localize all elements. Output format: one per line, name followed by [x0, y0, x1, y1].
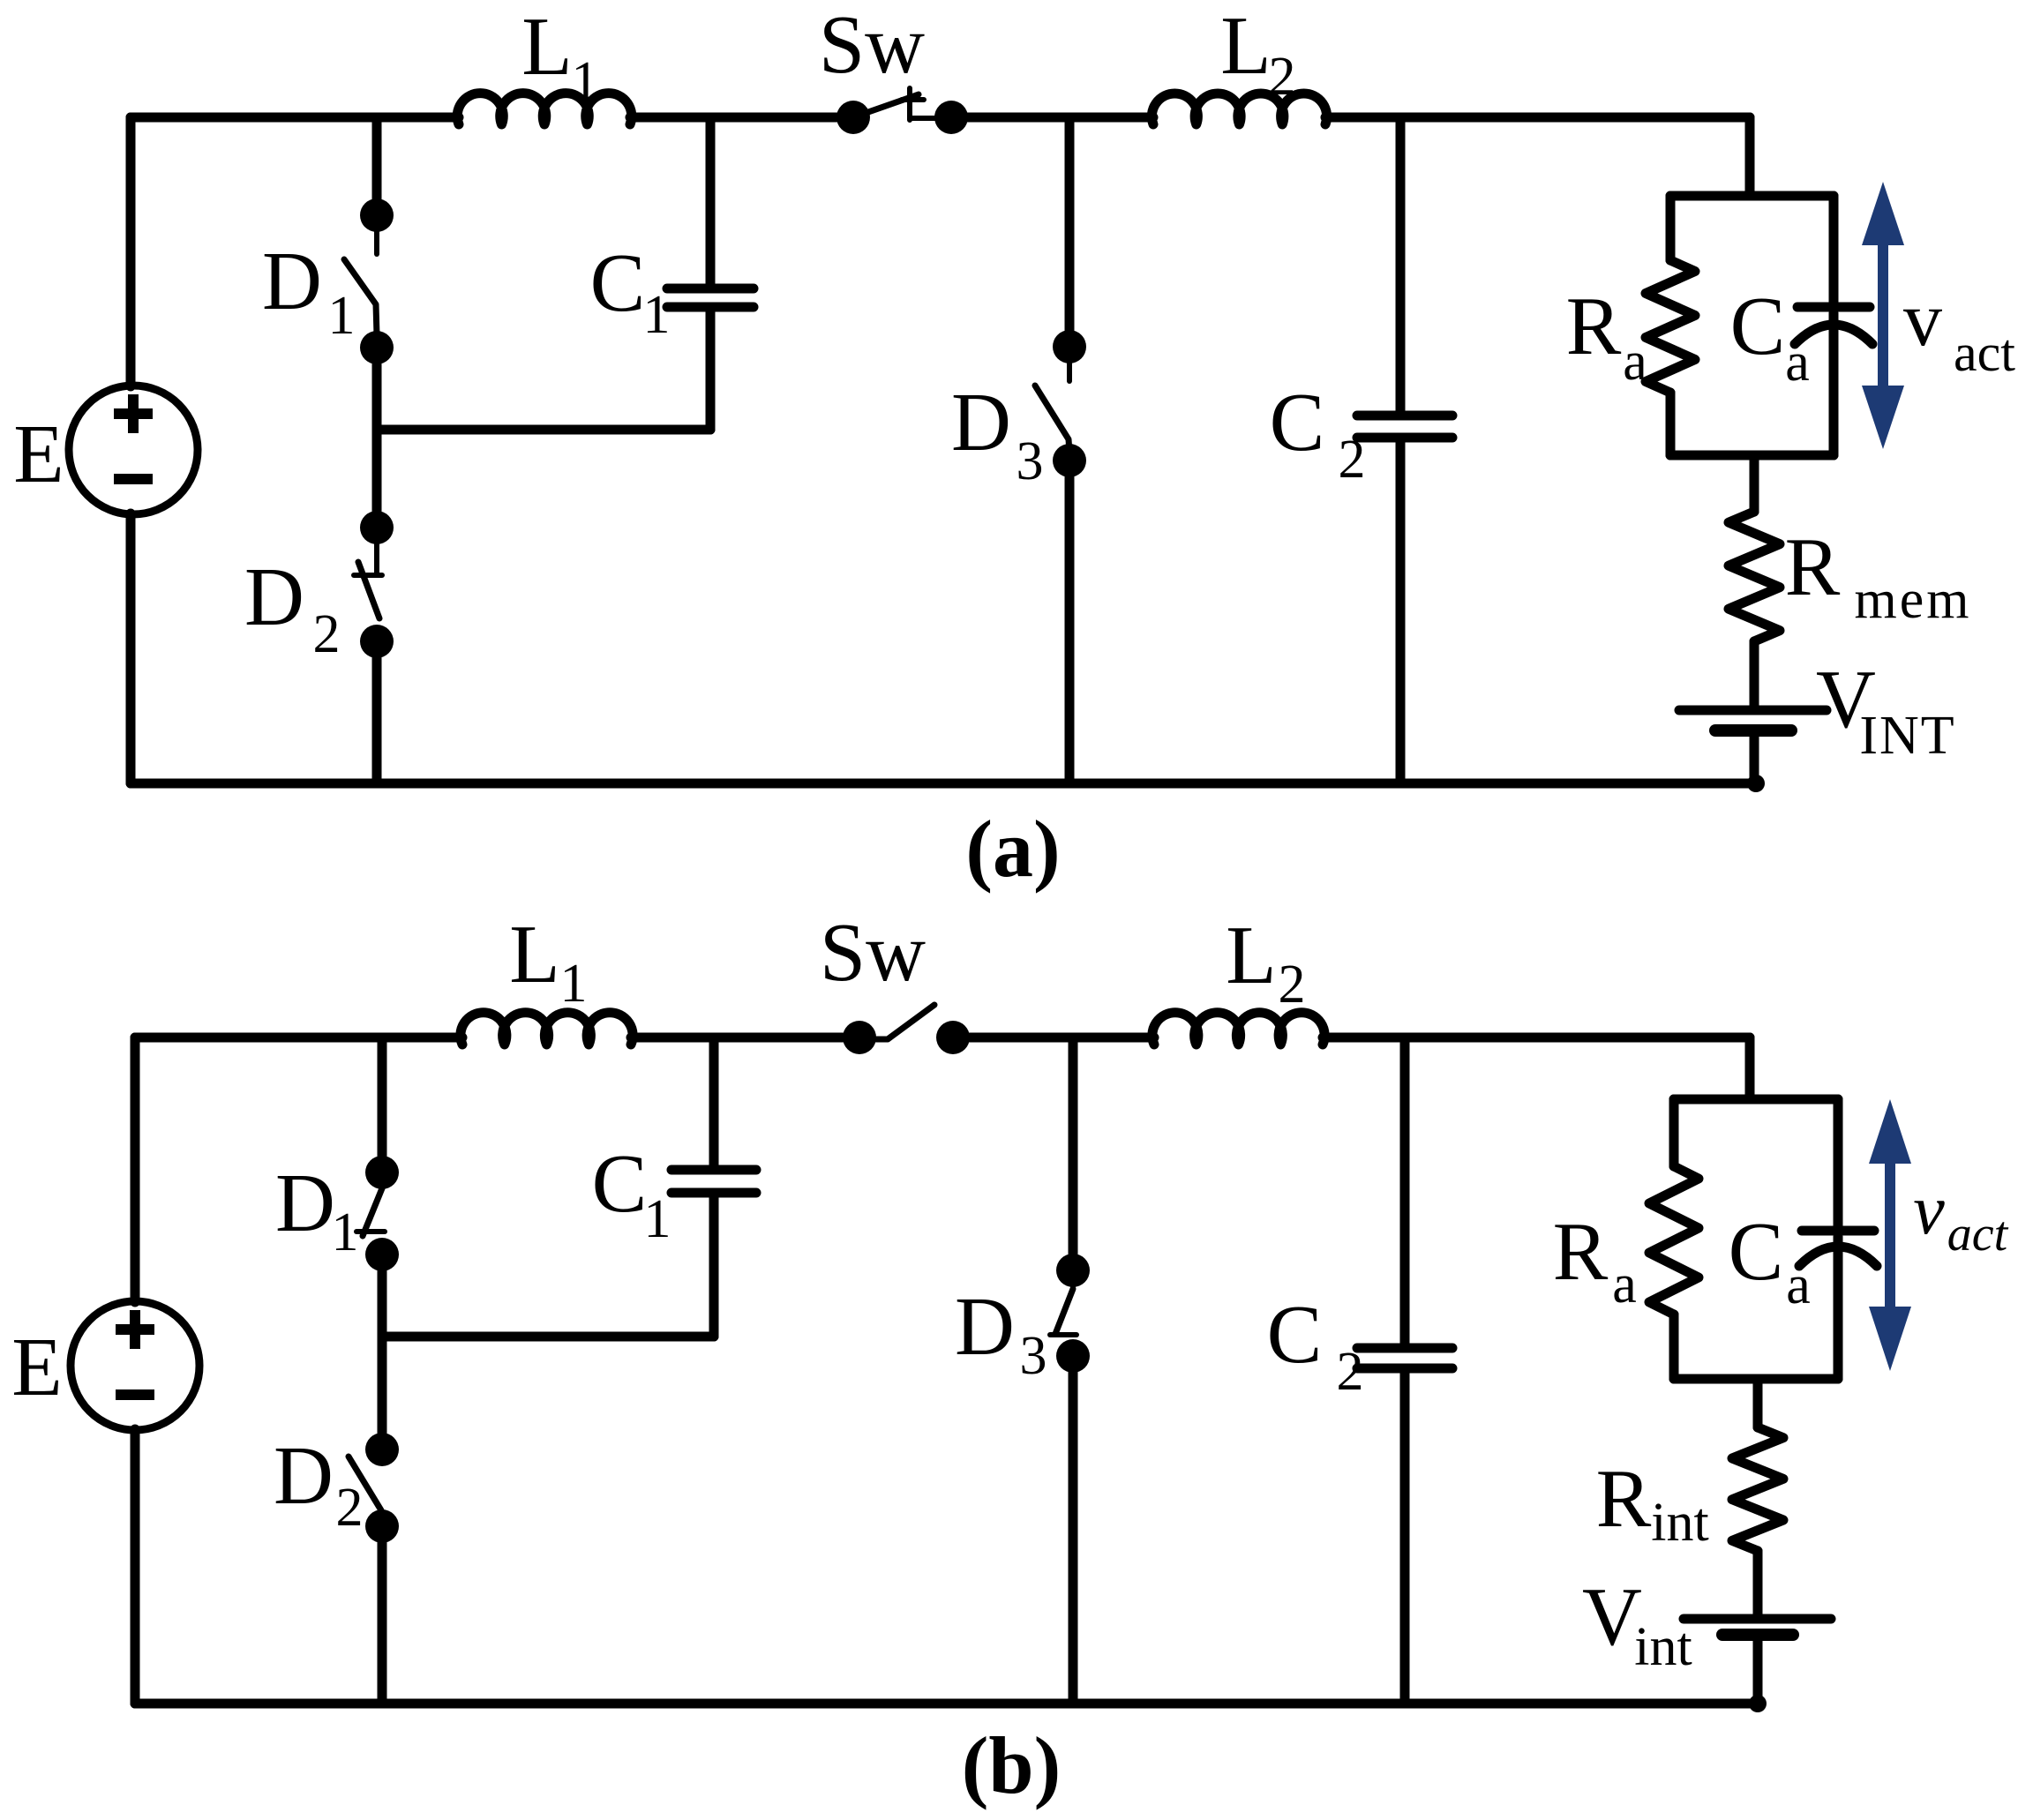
wire top rail (a) right segment — [951, 113, 1153, 123]
svg-text:D: D — [274, 1430, 334, 1522]
label C2 (b) — [1267, 1289, 1364, 1402]
inductor L2 (b) — [1152, 1013, 1324, 1045]
svg-text:L: L — [1220, 0, 1271, 92]
wire branch D3 to bottom rail (a) — [1065, 461, 1075, 783]
wire middle return C1 to D-branch (b) — [382, 1332, 714, 1342]
svg-text:v: v — [1903, 277, 1942, 363]
label Ca (a) — [1730, 281, 1810, 393]
svg-text:C: C — [1270, 377, 1325, 468]
wire top rail (b) left segment — [135, 1033, 462, 1043]
wire middle return C1 to D-branch (a) — [377, 425, 710, 435]
svg-text:Sw: Sw — [819, 0, 925, 91]
svg-text:a: a — [1786, 1255, 1811, 1315]
wire battery to bottom rail (a) — [1750, 730, 1759, 783]
svg-text:1: 1 — [328, 286, 356, 346]
wire top rail (b) right segment — [953, 1033, 1154, 1043]
wire branch D1-D2 (b) upper — [378, 1037, 387, 1174]
svg-text:mem: mem — [1855, 570, 1972, 630]
label V_int (b) — [1582, 1571, 1692, 1677]
svg-text:int: int — [1634, 1617, 1692, 1677]
wire branch D1-D2 (a) upper — [372, 117, 382, 217]
label Ra (b) — [1553, 1206, 1637, 1314]
svg-text:2: 2 — [1279, 955, 1306, 1015]
svg-text:2: 2 — [1339, 430, 1366, 490]
label C1 (b) — [592, 1138, 671, 1249]
svg-text:3: 3 — [1020, 1326, 1047, 1386]
switch-diode D2 (a) — [354, 511, 394, 658]
voltage arrow v_act (b) — [1869, 1099, 1911, 1371]
svg-text:act: act — [1947, 1207, 2009, 1262]
svg-text:a: a — [1785, 333, 1810, 393]
wire box to Rint (b) — [1753, 1379, 1763, 1427]
wire branch D1 to junction (b) — [378, 1255, 387, 1449]
wire branch D2 to bottom rail (a) — [372, 641, 382, 783]
voltage source E (b) — [71, 1301, 199, 1430]
svg-text:L: L — [509, 909, 559, 1000]
wire top rail (a) between L1 and Sw — [630, 113, 853, 123]
svg-text:(b): (b) — [962, 1720, 1061, 1810]
svg-text:v: v — [1913, 1172, 1945, 1249]
svg-text:2: 2 — [313, 604, 341, 664]
label Ca (b) — [1729, 1206, 1811, 1315]
svg-text:C: C — [592, 1138, 648, 1230]
junction dot bottom right (b) — [1749, 1695, 1767, 1712]
switch Sw (a) — [836, 88, 968, 134]
svg-text:int: int — [1651, 1493, 1708, 1553]
switch Sw (b) — [843, 1005, 970, 1054]
switch-diode D1 (a) — [344, 198, 394, 364]
svg-text:a: a — [1623, 332, 1647, 392]
label D3 (b) — [955, 1281, 1047, 1386]
svg-text:R: R — [1566, 281, 1622, 372]
switch-diode D3 (a) — [1035, 330, 1086, 477]
wire Rmem to battery (a) — [1750, 641, 1759, 710]
resistor Rint (b) — [1732, 1427, 1783, 1551]
svg-text:L: L — [521, 1, 572, 93]
label Ra (a) — [1566, 281, 1647, 392]
wire branch D1 to junction (a) — [372, 348, 382, 528]
wire branch D3 (b) upper — [1069, 1037, 1078, 1272]
wire branch D2 to bottom rail (b) — [378, 1526, 387, 1704]
wire branch D3 to bottom rail (b) — [1069, 1356, 1078, 1704]
wire top rail (b) after L2 — [1323, 1033, 1750, 1043]
svg-text:C: C — [590, 237, 646, 329]
wire battery to bottom rail (b) — [1753, 1635, 1763, 1704]
svg-text:D: D — [951, 377, 1011, 468]
svg-text:D: D — [244, 551, 304, 643]
capacitor C2 (a) — [1357, 117, 1452, 783]
label L1 (a) — [521, 1, 598, 111]
svg-text:act: act — [1954, 324, 2015, 382]
svg-text:R: R — [1553, 1206, 1609, 1298]
capacitor C1 (b) — [671, 1037, 756, 1337]
wire top rail to actuator box (a) — [1745, 117, 1755, 196]
svg-text:1: 1 — [644, 1189, 671, 1249]
svg-text:L: L — [1226, 910, 1276, 1001]
label V_INT (a) — [1816, 654, 1956, 766]
svg-text:Sw: Sw — [820, 907, 926, 999]
resistor Ra (b) on box left edge — [1649, 1099, 1699, 1379]
svg-text:1: 1 — [332, 1202, 359, 1262]
label D2 (a) — [244, 551, 340, 664]
svg-text:C: C — [1730, 281, 1786, 372]
svg-text:1: 1 — [560, 954, 588, 1014]
switch-diode D2 (b) — [349, 1433, 399, 1543]
actuator box (a) top edge — [1670, 191, 1834, 201]
label L1 (b) — [509, 909, 587, 1014]
wire left rail (a) upper — [126, 117, 136, 386]
svg-text:D: D — [955, 1281, 1015, 1373]
label v_act (a) — [1903, 277, 2015, 382]
label D2 (b) — [274, 1430, 363, 1538]
wire branch D3 (a) upper — [1065, 117, 1075, 348]
svg-text:a: a — [1612, 1255, 1637, 1314]
svg-text:2: 2 — [336, 1478, 364, 1538]
wire box to Rmem (a) — [1750, 455, 1759, 512]
wire left rail (b) lower — [131, 1429, 140, 1704]
svg-text:3: 3 — [1017, 431, 1044, 491]
label D3 (a) — [951, 377, 1043, 491]
capacitor C1 (a) — [667, 117, 754, 430]
label C1 (a) — [590, 237, 671, 345]
junction dot bottom right (a) — [1747, 775, 1765, 792]
capacitor C2 (b) — [1357, 1037, 1452, 1704]
wire top rail (a) left segment — [131, 113, 459, 123]
label D1 (a) — [262, 236, 355, 346]
battery V_int (b) — [1684, 1619, 1831, 1635]
voltage arrow v_act (a) — [1862, 182, 1904, 449]
voltage source E (a) — [69, 386, 198, 514]
svg-text:(a): (a) — [965, 804, 1060, 894]
svg-text:1: 1 — [643, 285, 671, 345]
svg-text:D: D — [275, 1157, 335, 1249]
actuator box (b) bottom edge — [1674, 1374, 1838, 1384]
actuator box (b) top edge — [1674, 1095, 1838, 1105]
resistor Rmem (a) — [1729, 512, 1780, 641]
wire bottom rail (a) — [131, 779, 1756, 789]
label v_act (b) — [1913, 1172, 2008, 1262]
wire Rint to battery (b) — [1753, 1551, 1763, 1619]
wire top rail (a) after L2 — [1325, 113, 1750, 123]
svg-text:2: 2 — [1337, 1342, 1364, 1402]
switch-diode D3 (b) — [1050, 1254, 1090, 1373]
label Rmem (a) — [1785, 521, 1972, 630]
label C2 (a) — [1270, 377, 1366, 490]
inductor L2 (a) — [1152, 94, 1326, 124]
actuator box (a) bottom edge — [1670, 451, 1834, 461]
wire top rail to actuator box (b) — [1745, 1037, 1755, 1099]
switch-diode D1 (b) — [356, 1156, 399, 1271]
capacitor Ca (b) on box right edge — [1799, 1099, 1877, 1379]
capacitor Ca (a) on box right edge — [1795, 196, 1872, 455]
svg-text:C: C — [1267, 1289, 1323, 1381]
wire left rail (b) upper — [131, 1037, 140, 1302]
svg-text:INT: INT — [1859, 706, 1955, 766]
svg-text:V: V — [1582, 1571, 1642, 1663]
svg-text:C: C — [1729, 1206, 1784, 1298]
svg-text:E: E — [13, 408, 64, 500]
svg-text:D: D — [262, 236, 322, 327]
svg-text:E: E — [11, 1322, 62, 1413]
battery V_INT (a) — [1679, 710, 1827, 730]
resistor Ra (a) on box left edge — [1646, 196, 1695, 455]
wire left rail (a) lower — [126, 513, 136, 783]
inductor L1 (a) — [457, 94, 632, 124]
svg-text:2: 2 — [1269, 47, 1296, 107]
label L2 (b) — [1226, 910, 1305, 1015]
svg-text:R: R — [1785, 521, 1841, 613]
label Rint (b) — [1596, 1453, 1709, 1553]
label L2 (a) — [1220, 0, 1295, 107]
inductor L1 (b) — [461, 1013, 633, 1045]
svg-text:1: 1 — [572, 51, 599, 111]
label D1 (b) — [275, 1157, 358, 1262]
wire bottom rail (b) — [135, 1699, 1758, 1709]
wire top rail (b) between L1 and Sw — [631, 1033, 859, 1043]
svg-text:R: R — [1596, 1453, 1652, 1545]
